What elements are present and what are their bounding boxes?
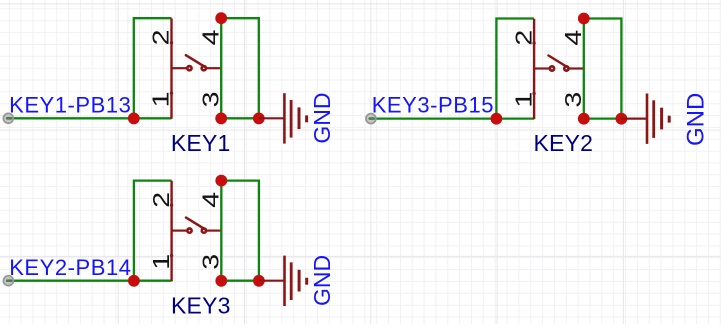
- switch KEY1 actuator blade: [186, 55, 205, 66]
- wire: right loop connecting pin 4 to pin 3 of KEY3: [221, 181, 259, 281]
- svg-text:3: 3: [561, 92, 586, 108]
- svg-text:GND: GND: [309, 92, 335, 143]
- ground symbol bar 1: [283, 256, 286, 306]
- svg-text:KEY2-PB14: KEY2-PB14: [9, 255, 131, 280]
- junction node at pin 3 (bottom) of KEY3: [215, 275, 227, 287]
- svg-text:3: 3: [199, 254, 224, 270]
- junction node at ground wire corner: [616, 113, 628, 125]
- junction node at pin 4 (top) of KEY2: [578, 13, 590, 25]
- wire KEY3-PB15 horizontal segment: [371, 117, 497, 119]
- svg-text:1: 1: [149, 254, 174, 270]
- wire: pin 4 to pin 3 vertical segment: [220, 181, 222, 281]
- ground symbol bar 2: [652, 100, 655, 138]
- junction node at KEY2-PB14 / pin 1 wire corner: [128, 275, 140, 287]
- wire KEY1-PB13 horizontal segment: [8, 117, 134, 119]
- pin 1 endpoint dot: [170, 254, 173, 257]
- switch KEY3 left contact circle: [187, 228, 191, 232]
- junction node at pin 3 (bottom) of KEY2: [578, 113, 590, 125]
- switch KEY1 left contact stub: [172, 67, 187, 69]
- switch KEY1 pins 1-2 internal line: [170, 18, 172, 118]
- port/pin marker circle for net KEY2-PB14: [3, 276, 13, 286]
- switch KEY2 actuator blade: [549, 56, 568, 68]
- switch KEY1 left contact circle: [187, 66, 191, 70]
- wire: left loop connecting pin 2 to pin 1 of KEY3: [134, 181, 172, 281]
- pin 2 endpoint dot: [532, 41, 535, 44]
- svg-text:4: 4: [561, 30, 586, 46]
- junction node at ground wire corner: [253, 275, 265, 287]
- svg-text:GND: GND: [309, 255, 335, 306]
- switch KEY3 pins 1-2 internal line: [170, 181, 172, 281]
- wire: right loop connecting pin 4 to pin 3 of KEY1: [221, 18, 259, 118]
- junction node at KEY1-PB13 / pin 1 wire corner: [128, 113, 140, 125]
- ground symbol bar 4: [305, 278, 308, 285]
- junction node at pin 4 (top) of KEY1: [215, 12, 227, 24]
- ground symbol bar 4: [305, 115, 308, 122]
- switch KEY3 left contact stub: [172, 230, 187, 232]
- wire stub visible inside port circle: [7, 279, 11, 282]
- ground symbol bar 1: [646, 94, 649, 144]
- switch KEY2 left contact circle: [550, 66, 554, 70]
- wire KEY2-PB14 horizontal segment: [8, 280, 133, 282]
- wire: left loop connecting pin 2 to pin 1 of KEY2: [496, 19, 534, 119]
- ground symbol bar 4: [668, 116, 671, 123]
- switch KEY3 right contact circle: [202, 228, 206, 232]
- svg-text:KEY1-PB13: KEY1-PB13: [9, 92, 131, 117]
- ground symbol bar 3: [298, 270, 301, 292]
- wire: pin 4 to pin 3 vertical segment: [220, 18, 222, 118]
- port/pin marker circle for net KEY3-PB15: [366, 114, 376, 124]
- svg-text:3: 3: [199, 91, 224, 107]
- pin 1 endpoint dot: [170, 92, 173, 95]
- pin 1 endpoint dot: [532, 92, 535, 95]
- junction node at pin 3 (bottom) of KEY1: [215, 113, 227, 125]
- wire: right loop connecting pin 4 to pin 3 of KEY2: [584, 19, 622, 119]
- switch KEY2 right contact circle: [564, 66, 568, 70]
- svg-text:2: 2: [512, 30, 537, 46]
- switch KEY1 right contact circle: [202, 66, 206, 70]
- svg-text:GND: GND: [683, 93, 710, 146]
- wire stub visible inside port circle: [7, 117, 11, 120]
- ground symbol lead (KEY3 circuit): [259, 280, 285, 282]
- switch KEY3 right contact stub: [207, 230, 222, 232]
- ground symbol bar 3: [660, 108, 663, 130]
- svg-text:KEY1: KEY1: [171, 130, 231, 156]
- ground symbol bar 2: [290, 100, 293, 138]
- wire: pin 4 to pin 3 vertical segment: [583, 19, 585, 119]
- svg-text:2: 2: [149, 29, 174, 45]
- ground symbol bar 3: [298, 107, 301, 129]
- pin 2 endpoint dot: [170, 204, 173, 207]
- switch KEY1 right contact stub: [207, 67, 222, 69]
- svg-text:2: 2: [149, 192, 174, 208]
- ground symbol bar 1: [283, 93, 286, 143]
- svg-text:KEY3-PB15: KEY3-PB15: [372, 93, 494, 118]
- junction node at ground wire corner: [253, 113, 265, 125]
- wire: left loop connecting pin 2 to pin 1 of KEY1: [134, 18, 172, 118]
- junction node at KEY3-PB15 / pin 1 wire corner: [491, 113, 503, 125]
- wire stub visible inside port circle: [370, 117, 374, 120]
- svg-text:1: 1: [512, 92, 537, 108]
- junction node at pin 4 (top) of KEY3: [215, 175, 227, 187]
- switch KEY2 left contact stub: [534, 67, 549, 69]
- switch KEY2 right contact stub: [569, 67, 584, 69]
- switch KEY2 pins 1-2 internal line: [533, 19, 535, 119]
- ground symbol bar 2: [290, 262, 293, 300]
- svg-text:1: 1: [149, 91, 174, 107]
- port/pin marker circle for net KEY1-PB13: [3, 113, 13, 123]
- ground symbol lead (KEY2 circuit): [621, 117, 647, 119]
- switch KEY3 actuator blade: [186, 218, 205, 230]
- svg-text:4: 4: [199, 192, 224, 208]
- pin 2 endpoint dot: [170, 41, 173, 44]
- svg-text:4: 4: [199, 29, 224, 45]
- svg-text:KEY2: KEY2: [534, 130, 594, 156]
- ground symbol lead (KEY1 circuit): [259, 117, 285, 119]
- svg-text:KEY3: KEY3: [171, 292, 231, 318]
